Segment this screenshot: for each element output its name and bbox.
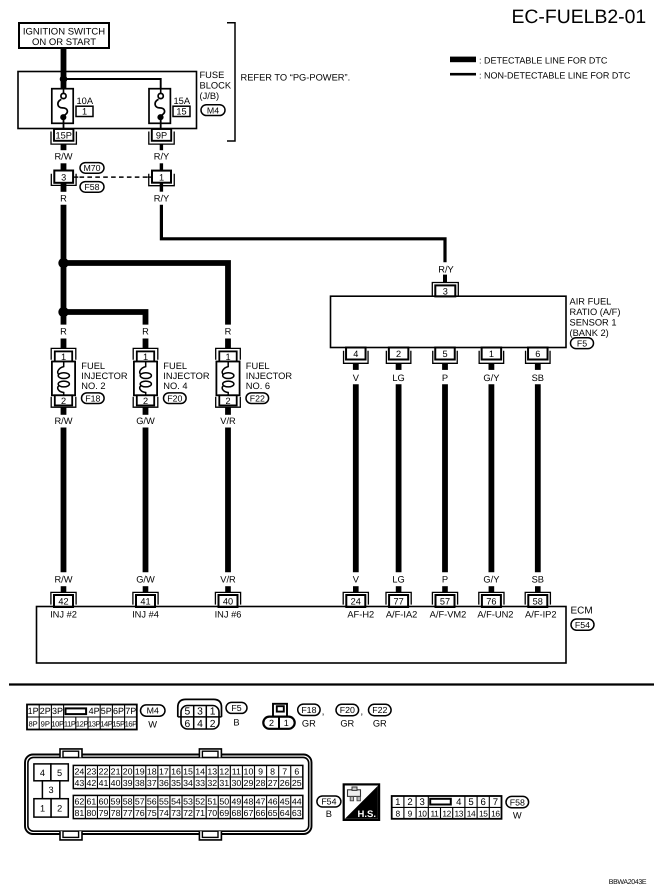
- svg-text:5: 5: [57, 768, 62, 778]
- svg-text:F22: F22: [372, 705, 387, 715]
- H.S. super multiple junction symbol: [344, 784, 379, 820]
- svg-text:1: 1: [489, 349, 494, 359]
- svg-text:G/W: G/W: [136, 574, 155, 584]
- svg-text:3: 3: [49, 785, 54, 795]
- svg-text:INJECTOR: INJECTOR: [81, 371, 128, 381]
- svg-text:SENSOR 1: SENSOR 1: [570, 317, 617, 327]
- svg-text:24: 24: [74, 767, 84, 777]
- svg-text:5: 5: [468, 797, 473, 808]
- svg-text:68: 68: [231, 808, 241, 818]
- svg-text:10: 10: [418, 808, 427, 818]
- connector face F54 left pin group: [34, 764, 68, 817]
- svg-text:66: 66: [256, 808, 266, 818]
- svg-text:36: 36: [159, 778, 169, 788]
- svg-text:,: ,: [361, 707, 364, 717]
- connector face F18/F20/F22 symbol: [263, 704, 294, 729]
- wire stub below injector no.6: [225, 407, 231, 415]
- svg-text:53: 53: [183, 797, 193, 807]
- svg-text:14: 14: [195, 767, 205, 777]
- svg-text:76: 76: [135, 808, 145, 818]
- svg-text:41: 41: [99, 778, 109, 788]
- svg-text:1: 1: [395, 797, 400, 808]
- connector M4 oval (face): [141, 705, 166, 716]
- svg-text:R/Y: R/Y: [438, 264, 454, 274]
- fuse block (J/B) box: [18, 72, 197, 129]
- svg-text:72: 72: [183, 808, 193, 818]
- wire stub into ECM pin 77: [396, 586, 402, 592]
- svg-text:13: 13: [455, 808, 464, 818]
- svg-text:4: 4: [40, 768, 45, 778]
- svg-text:4: 4: [456, 797, 462, 808]
- svg-text:16P: 16P: [125, 719, 138, 728]
- svg-text:2: 2: [407, 797, 412, 808]
- svg-text:40: 40: [223, 597, 233, 607]
- svg-text:60: 60: [99, 797, 109, 807]
- connector F54 oval: [571, 619, 594, 630]
- svg-text:17: 17: [159, 767, 169, 777]
- svg-text:55: 55: [159, 797, 169, 807]
- ECM box: [37, 607, 567, 664]
- svg-text:44: 44: [292, 797, 302, 807]
- svg-text:57: 57: [440, 597, 450, 607]
- svg-text:33: 33: [195, 778, 205, 788]
- connector F5 oval (face): [226, 702, 247, 713]
- svg-text:25: 25: [292, 778, 302, 788]
- svg-text:8: 8: [395, 808, 400, 818]
- svg-text:G/W: G/W: [136, 416, 155, 426]
- svg-text:V/R: V/R: [220, 574, 236, 584]
- fuel injector no.6 coil body (F22): [216, 362, 239, 396]
- svg-text:71: 71: [195, 808, 205, 818]
- wire V/R to ECM: [225, 428, 231, 573]
- svg-text:58: 58: [123, 797, 133, 807]
- svg-text:13: 13: [207, 767, 217, 777]
- connector M4 oval: [201, 105, 225, 116]
- svg-text:4: 4: [197, 719, 203, 730]
- fuel injector no.6 label: [246, 361, 293, 391]
- svg-text:GR: GR: [373, 719, 387, 729]
- svg-text:81: 81: [74, 808, 84, 818]
- svg-text:4: 4: [353, 349, 358, 359]
- svg-text:V/R: V/R: [220, 416, 236, 426]
- svg-text:1: 1: [143, 352, 148, 362]
- svg-text:: NON-DETECTABLE LINE FOR DTC: : NON-DETECTABLE LINE FOR DTC: [479, 71, 631, 81]
- injector no.4 pin 2: [133, 395, 158, 407]
- svg-text:5: 5: [185, 707, 191, 718]
- svg-text:73: 73: [171, 808, 181, 818]
- svg-text:2: 2: [57, 803, 62, 813]
- air fuel ratio sensor label: [570, 297, 621, 338]
- svg-text:IGNITION SWITCH: IGNITION SWITCH: [23, 27, 105, 38]
- svg-text:50: 50: [219, 797, 229, 807]
- svg-text:NO. 4: NO. 4: [163, 381, 187, 391]
- svg-text:SB: SB: [532, 574, 544, 584]
- svg-text:65: 65: [268, 808, 278, 818]
- svg-text:REFER TO “PG-POWER”.: REFER TO “PG-POWER”.: [241, 72, 351, 82]
- svg-text:10P: 10P: [51, 719, 64, 728]
- svg-text:18: 18: [147, 767, 157, 777]
- svg-text:4P: 4P: [89, 706, 100, 716]
- svg-text:W: W: [148, 720, 157, 730]
- svg-text:74: 74: [159, 808, 169, 818]
- svg-text:46: 46: [268, 797, 278, 807]
- svg-text:10A: 10A: [77, 96, 94, 106]
- svg-text:R/W: R/W: [54, 574, 72, 584]
- wire stub into ECM pin 58: [535, 586, 541, 592]
- fuse 10A: [52, 89, 73, 130]
- wire stub below 9P: [160, 144, 163, 150]
- svg-text:R: R: [225, 327, 232, 337]
- svg-text:57: 57: [135, 797, 145, 807]
- svg-text:15A: 15A: [174, 96, 191, 106]
- svg-text:63: 63: [292, 808, 302, 818]
- svg-text:80: 80: [87, 808, 97, 818]
- svg-text:15P: 15P: [56, 131, 72, 141]
- svg-text:67: 67: [244, 808, 254, 818]
- svg-text:FUEL: FUEL: [246, 361, 270, 371]
- svg-text:LG: LG: [392, 574, 404, 584]
- svg-text:M4: M4: [147, 706, 159, 716]
- svg-text:A/F-IA2: A/F-IA2: [386, 610, 418, 620]
- svg-text:23: 23: [87, 767, 97, 777]
- wire: junction to fuse 15A: [64, 79, 161, 93]
- svg-text:F54: F54: [575, 620, 590, 630]
- svg-text:10: 10: [244, 767, 254, 777]
- svg-text:M70: M70: [83, 163, 100, 173]
- svg-text:38: 38: [135, 778, 145, 788]
- svg-text:(BANK 2): (BANK 2): [570, 328, 609, 338]
- svg-text:54: 54: [171, 797, 181, 807]
- svg-text:1: 1: [210, 707, 216, 718]
- svg-text:V: V: [353, 373, 360, 383]
- injector no.6 pin 2: [216, 395, 241, 407]
- fuel injector no.4 coil body (F20): [134, 362, 157, 396]
- connector F18 oval (face): [298, 704, 320, 715]
- connector F58 oval (face): [506, 796, 529, 807]
- ECM pin 58: [525, 592, 550, 607]
- svg-text:2: 2: [396, 349, 401, 359]
- ECM pin 24: [343, 592, 368, 607]
- connector face F54 pin grid rows 62-63: [73, 795, 303, 818]
- fuel injector no.4 label: [163, 361, 210, 391]
- legend: detectable line for DTC: [450, 56, 608, 66]
- wire stub into ECM pin 57: [442, 586, 448, 592]
- svg-text:58: 58: [533, 597, 543, 607]
- connector terminal 1 (F58): [149, 171, 175, 186]
- svg-text:FUEL: FUEL: [81, 361, 105, 371]
- svg-text:62: 62: [74, 797, 84, 807]
- svg-text:1: 1: [40, 803, 45, 813]
- svg-text:A/F-VM2: A/F-VM2: [430, 610, 467, 620]
- connector F20 oval (face): [336, 704, 359, 715]
- svg-text:M4: M4: [207, 105, 219, 115]
- svg-text:13P: 13P: [88, 719, 101, 728]
- wire stub below connector 1: [160, 183, 163, 192]
- svg-text:6P: 6P: [113, 706, 124, 716]
- svg-text:12: 12: [442, 808, 451, 818]
- fuse number box 1: [76, 106, 93, 116]
- svg-text:1: 1: [159, 172, 164, 182]
- svg-text:39: 39: [123, 778, 133, 788]
- svg-text:19: 19: [135, 767, 145, 777]
- svg-text:BBWA2043E: BBWA2043E: [609, 879, 647, 886]
- svg-text:47: 47: [256, 797, 266, 807]
- svg-text:11: 11: [430, 808, 439, 818]
- svg-text:52: 52: [195, 797, 205, 807]
- fuel injector no.2 label: [81, 361, 128, 391]
- connector F18 oval: [82, 393, 105, 404]
- svg-text:INJ #2: INJ #2: [50, 610, 77, 620]
- injector no.2 pin 1: [51, 348, 76, 362]
- svg-text:64: 64: [280, 808, 290, 818]
- svg-text:NO. 2: NO. 2: [81, 381, 105, 391]
- svg-text:GR: GR: [340, 719, 354, 729]
- svg-text:32: 32: [207, 778, 217, 788]
- sensor pin 2: [386, 348, 411, 364]
- svg-text:R/W: R/W: [54, 416, 72, 426]
- wire SB to ECM: [535, 384, 541, 572]
- junction node A: [58, 258, 68, 268]
- refer-to bracket: [227, 23, 235, 141]
- svg-text:ECM: ECM: [571, 606, 593, 617]
- svg-text:2: 2: [269, 718, 274, 728]
- svg-text:6: 6: [294, 767, 299, 777]
- svg-text:2: 2: [210, 719, 216, 730]
- svg-text:76: 76: [486, 597, 496, 607]
- svg-text:RATIO (A/F): RATIO (A/F): [570, 307, 621, 317]
- svg-text:15: 15: [479, 808, 488, 818]
- svg-text:F20: F20: [340, 705, 355, 715]
- svg-text:24: 24: [351, 597, 361, 607]
- svg-text:14P: 14P: [100, 719, 113, 728]
- svg-text:56: 56: [147, 797, 157, 807]
- svg-text:A/F-UN2: A/F-UN2: [477, 610, 513, 620]
- svg-text:40: 40: [111, 778, 121, 788]
- svg-text:45: 45: [280, 797, 290, 807]
- svg-text:28: 28: [256, 778, 266, 788]
- svg-text:2: 2: [61, 396, 66, 406]
- connector F20 oval: [164, 393, 187, 404]
- air fuel ratio sensor box: [331, 296, 567, 347]
- svg-text:5: 5: [442, 349, 447, 359]
- svg-text:B: B: [326, 809, 332, 819]
- svg-text:3: 3: [61, 172, 66, 182]
- svg-text:ON OR START: ON OR START: [32, 37, 96, 48]
- svg-text:9P: 9P: [41, 719, 50, 728]
- svg-text:22: 22: [99, 767, 109, 777]
- svg-text:G/Y: G/Y: [483, 574, 499, 584]
- svg-text:9: 9: [408, 808, 413, 818]
- svg-text:1: 1: [61, 352, 66, 362]
- svg-text:79: 79: [99, 808, 109, 818]
- svg-text:W: W: [513, 811, 522, 821]
- sensor pin 4: [344, 348, 369, 364]
- sensor pin 5: [433, 348, 458, 364]
- fuse 15A: [149, 89, 170, 130]
- svg-text:F5: F5: [231, 703, 241, 713]
- svg-text:R: R: [60, 193, 67, 203]
- svg-text:51: 51: [207, 797, 217, 807]
- wire stub below 15P: [61, 144, 67, 150]
- wire V to ECM: [353, 384, 359, 572]
- svg-text:F18: F18: [301, 705, 316, 715]
- wire stub below sensor pin 2: [396, 363, 402, 370]
- svg-text:48: 48: [244, 797, 254, 807]
- svg-text:INJ #6: INJ #6: [215, 610, 242, 620]
- wire stub above sensor pin 3: [443, 275, 447, 283]
- ECM pin 57: [432, 592, 457, 607]
- svg-text:8: 8: [270, 767, 275, 777]
- wire G/Y to ECM: [488, 384, 494, 572]
- svg-text:7: 7: [493, 797, 498, 808]
- svg-text:27: 27: [268, 778, 278, 788]
- junction node in fuse block: [60, 75, 68, 83]
- svg-text:42: 42: [58, 597, 68, 607]
- connector face F54 pin grid rows 24-25: [73, 765, 303, 788]
- connector terminal 15P: [51, 129, 76, 144]
- svg-text:(J/B): (J/B): [200, 91, 220, 101]
- svg-text:35: 35: [171, 778, 181, 788]
- svg-text:F54: F54: [321, 797, 336, 807]
- connector terminal 9P: [149, 129, 174, 144]
- separator line: [9, 683, 654, 685]
- wire branch to injector no.6: [64, 263, 229, 325]
- svg-text:R: R: [60, 327, 67, 337]
- connector face M4 pin grid: [27, 705, 137, 730]
- svg-text:9P: 9P: [156, 131, 167, 141]
- svg-text:1: 1: [284, 718, 289, 728]
- svg-text:F20: F20: [167, 393, 182, 403]
- svg-text:77: 77: [393, 597, 403, 607]
- svg-text:78: 78: [111, 808, 121, 818]
- connector F54 oval (face): [317, 796, 341, 807]
- fuse block label: [200, 70, 232, 101]
- connector F58 oval: [80, 182, 104, 193]
- svg-text:SB: SB: [532, 373, 544, 383]
- tick from connector 3 to dashed link: [73, 176, 78, 178]
- ECM pin 41: [133, 592, 158, 607]
- svg-text:7: 7: [282, 767, 287, 777]
- svg-text:FUSE: FUSE: [200, 70, 225, 80]
- wire stub into injector no.4: [143, 339, 149, 349]
- svg-text:12: 12: [219, 767, 229, 777]
- wire stub below sensor pin 6: [535, 363, 541, 370]
- svg-text:H.S.: H.S.: [358, 809, 376, 820]
- ECM pin 77: [386, 592, 411, 607]
- wire R/Y thin run to sensor: [161, 205, 445, 262]
- svg-text:P: P: [442, 373, 448, 383]
- svg-text:15: 15: [176, 106, 186, 116]
- wire stub above connector 1: [160, 163, 163, 171]
- wire G/W to ECM: [143, 428, 149, 573]
- svg-text:12P: 12P: [76, 719, 89, 728]
- svg-text:R/W: R/W: [54, 151, 72, 161]
- svg-text:G/Y: G/Y: [483, 373, 499, 383]
- wire stub into injector no.6: [225, 339, 231, 349]
- ECM pin 76: [479, 592, 504, 607]
- svg-text:7P: 7P: [125, 706, 136, 716]
- svg-text:9: 9: [258, 767, 263, 777]
- svg-text:5P: 5P: [101, 706, 112, 716]
- svg-text:42: 42: [87, 778, 97, 788]
- svg-text:3: 3: [420, 797, 425, 808]
- svg-text:BLOCK: BLOCK: [200, 81, 232, 91]
- wire R main run: [61, 205, 67, 325]
- svg-text:1: 1: [225, 352, 230, 362]
- svg-text:3: 3: [443, 287, 448, 297]
- svg-text:6: 6: [481, 797, 486, 808]
- svg-text:16: 16: [491, 808, 500, 818]
- svg-text:1P: 1P: [28, 706, 39, 716]
- ECM pin 42: [51, 592, 76, 607]
- svg-text:F5: F5: [577, 338, 587, 348]
- wire R/W to ECM: [61, 428, 67, 573]
- wire stub into ECM pin 41: [143, 586, 149, 592]
- connector F22 oval (face): [369, 704, 392, 715]
- wire stub above connector 3: [61, 163, 67, 171]
- svg-text:77: 77: [123, 808, 133, 818]
- svg-text:B: B: [233, 718, 239, 728]
- svg-text:11: 11: [232, 767, 241, 777]
- ECM pin 40: [215, 592, 240, 607]
- svg-text:20: 20: [123, 767, 133, 777]
- svg-text:2: 2: [143, 396, 148, 406]
- fuel injector no.2 coil body (F18): [52, 362, 75, 396]
- svg-text:V: V: [353, 574, 360, 584]
- connector face F5: [178, 699, 222, 729]
- svg-text:P: P: [442, 574, 448, 584]
- svg-text:75: 75: [147, 808, 157, 818]
- svg-text:30: 30: [231, 778, 241, 788]
- wire stub into ECM pin 40: [225, 586, 231, 592]
- svg-text:EC-FUELB2-01: EC-FUELB2-01: [512, 6, 647, 28]
- wire branch to injector no.4: [64, 312, 146, 325]
- connector face F54 (ECM) outline: [25, 749, 312, 840]
- ignition switch box: [19, 23, 109, 48]
- injector no.2 pin 2: [51, 395, 76, 407]
- connector terminal 3 (M70): [51, 171, 76, 186]
- wire stub into ECM pin 24: [353, 586, 359, 592]
- tick into connector 1: [148, 176, 152, 178]
- svg-text:2: 2: [225, 396, 230, 406]
- connector face F58 pin grid: [392, 796, 502, 819]
- wire stub below injector no.2: [61, 407, 67, 415]
- svg-text:INJECTOR: INJECTOR: [246, 371, 293, 381]
- svg-text:,: ,: [322, 707, 325, 717]
- legend: non-detectable line for DTC: [450, 71, 631, 81]
- wire stub below injector no.4: [143, 407, 149, 415]
- svg-text:R/Y: R/Y: [154, 151, 170, 161]
- junction node B: [58, 307, 68, 317]
- svg-text:AIR FUEL: AIR FUEL: [570, 297, 612, 307]
- svg-text:26: 26: [280, 778, 290, 788]
- svg-text:R: R: [142, 327, 149, 337]
- wire stub below sensor pin 1: [488, 363, 494, 370]
- wire stub into ECM pin 76: [489, 586, 495, 592]
- wire: ignition switch to fuse block: [61, 48, 67, 89]
- svg-text:6: 6: [185, 719, 191, 730]
- svg-text:F58: F58: [510, 797, 525, 807]
- svg-text:8P: 8P: [28, 719, 37, 728]
- connector F5 oval: [571, 338, 594, 349]
- svg-text:3P: 3P: [52, 706, 63, 716]
- svg-text:R/Y: R/Y: [154, 193, 170, 203]
- svg-text:F58: F58: [84, 182, 99, 192]
- wire stub below sensor pin 5: [442, 363, 448, 370]
- svg-text:31: 31: [219, 778, 229, 788]
- connector M70 oval: [80, 163, 104, 174]
- svg-text:INJECTOR: INJECTOR: [163, 371, 210, 381]
